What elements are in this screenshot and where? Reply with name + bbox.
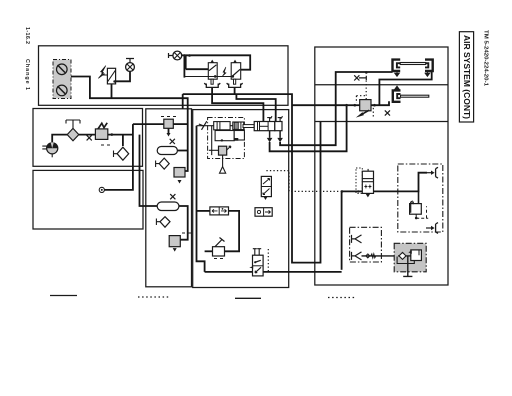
svg-text:AIR SYSTEM (CONT): AIR SYSTEM (CONT) <box>462 35 472 119</box>
svg-text:1-16.2: 1-16.2 <box>24 27 30 44</box>
svg-text:Change 1: Change 1 <box>24 59 30 90</box>
svg-text:TM 5-2420-224-20-1: TM 5-2420-224-20-1 <box>483 30 489 86</box>
